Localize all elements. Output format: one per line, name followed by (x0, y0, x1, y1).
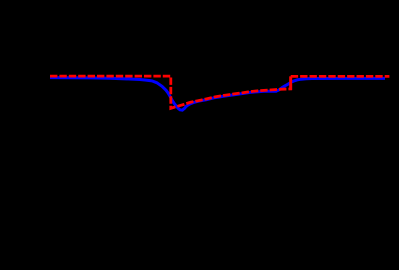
red dashed reference: right flat segment (291, 75, 390, 78)
red dashed reference: left flat, step down, recovery ramp, step up (50, 76, 291, 108)
red step-up vertical (solid fill under dashes) (289, 76, 292, 90)
blue response curve (50, 78, 385, 111)
